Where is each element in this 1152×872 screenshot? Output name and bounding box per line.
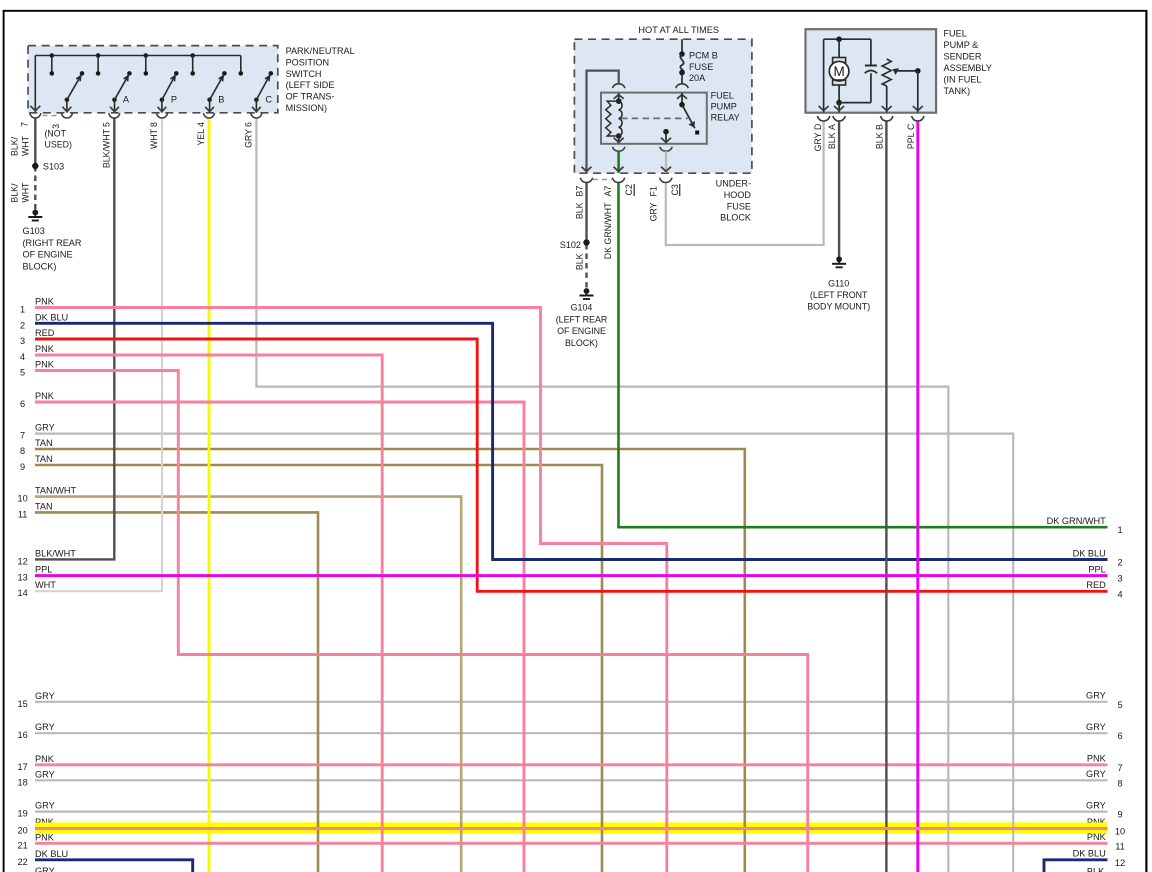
- svg-text:PNK: PNK: [1087, 754, 1107, 764]
- svg-text:GRY: GRY: [1086, 769, 1106, 779]
- svg-text:HOT AT ALL TIMES: HOT AT ALL TIMES: [638, 25, 719, 35]
- svg-text:6: 6: [243, 122, 253, 127]
- svg-text:SWITCH: SWITCH: [286, 69, 322, 79]
- svg-text:(NOT: (NOT: [45, 129, 67, 139]
- svg-text:WHT: WHT: [149, 128, 159, 149]
- svg-text:BLK/: BLK/: [10, 183, 20, 203]
- svg-text:13: 13: [17, 573, 27, 583]
- svg-text:GRY: GRY: [1086, 722, 1106, 732]
- svg-text:GRY: GRY: [1086, 691, 1106, 701]
- svg-text:RED: RED: [1086, 580, 1106, 590]
- svg-text:BLK/WHT: BLK/WHT: [101, 128, 111, 168]
- svg-text:6: 6: [20, 399, 25, 409]
- svg-text:G103: G103: [23, 226, 45, 236]
- svg-text:PNK: PNK: [35, 360, 55, 370]
- svg-text:C3: C3: [670, 184, 680, 195]
- svg-text:UNDER-: UNDER-: [716, 179, 751, 189]
- svg-text:4: 4: [20, 352, 25, 362]
- svg-text:6: 6: [1117, 731, 1122, 741]
- svg-text:2: 2: [20, 320, 25, 330]
- svg-text:10: 10: [17, 494, 27, 504]
- svg-text:DK BLU: DK BLU: [1073, 548, 1106, 558]
- svg-text:(LEFT FRONT: (LEFT FRONT: [810, 290, 868, 300]
- svg-text:SENDER: SENDER: [944, 51, 982, 61]
- svg-text:18: 18: [17, 777, 27, 787]
- svg-text:TAN/WHT: TAN/WHT: [35, 486, 77, 496]
- svg-text:GRY: GRY: [35, 801, 55, 811]
- svg-text:BLOCK: BLOCK: [720, 213, 751, 223]
- svg-text:BLK/: BLK/: [10, 136, 20, 156]
- svg-text:PUMP &: PUMP &: [944, 40, 979, 50]
- svg-text:RED: RED: [35, 328, 55, 338]
- svg-text:4: 4: [1117, 589, 1122, 599]
- svg-text:PNK: PNK: [1087, 832, 1107, 842]
- svg-text:2: 2: [1117, 558, 1122, 568]
- svg-text:FUEL: FUEL: [944, 29, 967, 39]
- svg-text:3: 3: [1117, 574, 1122, 584]
- svg-text:21: 21: [17, 840, 27, 850]
- svg-text:GRY: GRY: [243, 129, 253, 148]
- svg-text:F1: F1: [649, 186, 659, 196]
- svg-text:22: 22: [17, 857, 27, 867]
- svg-text:TANK): TANK): [944, 86, 971, 96]
- svg-text:DK BLU: DK BLU: [1073, 849, 1106, 859]
- svg-text:17: 17: [17, 762, 27, 772]
- svg-text:5: 5: [20, 368, 25, 378]
- svg-text:YEL: YEL: [196, 129, 206, 146]
- svg-text:9: 9: [20, 462, 25, 472]
- svg-text:A7: A7: [603, 186, 613, 197]
- svg-text:MISSION): MISSION): [286, 103, 327, 113]
- svg-text:GRY: GRY: [649, 202, 659, 221]
- svg-text:TAN: TAN: [35, 454, 53, 464]
- svg-text:14: 14: [17, 588, 27, 598]
- svg-text:OF ENGINE: OF ENGINE: [23, 250, 73, 260]
- svg-text:S102: S102: [560, 240, 581, 250]
- svg-text:BLOCK): BLOCK): [23, 261, 57, 271]
- svg-text:GRY: GRY: [35, 866, 55, 872]
- svg-text:GRY: GRY: [35, 722, 55, 732]
- svg-text:BLK: BLK: [575, 202, 585, 219]
- svg-text:DK GRN/WHT: DK GRN/WHT: [603, 202, 613, 259]
- svg-text:A: A: [123, 95, 130, 105]
- svg-text:DK BLU: DK BLU: [35, 849, 68, 859]
- svg-text:M: M: [833, 64, 844, 79]
- svg-text:BLK: BLK: [1087, 867, 1105, 872]
- svg-text:PCM B: PCM B: [689, 51, 718, 61]
- svg-text:(RIGHT REAR: (RIGHT REAR: [23, 238, 82, 248]
- svg-text:PPL: PPL: [35, 565, 52, 575]
- svg-text:OF ENGINE: OF ENGINE: [557, 326, 606, 336]
- svg-text:PPL: PPL: [1088, 564, 1105, 574]
- svg-text:TAN: TAN: [35, 438, 53, 448]
- svg-text:USED): USED): [45, 140, 72, 150]
- svg-text:FUSE: FUSE: [727, 201, 751, 211]
- svg-text:PNK: PNK: [35, 832, 55, 842]
- svg-text:B7: B7: [575, 186, 585, 197]
- svg-text:WHT: WHT: [35, 580, 56, 590]
- svg-text:7: 7: [20, 431, 25, 441]
- svg-text:19: 19: [17, 809, 27, 819]
- svg-text:C: C: [906, 123, 916, 130]
- svg-text:3: 3: [20, 336, 25, 346]
- svg-text:TAN: TAN: [35, 501, 53, 511]
- svg-text:(LEFT REAR: (LEFT REAR: [556, 314, 608, 324]
- svg-text:1: 1: [20, 305, 25, 315]
- svg-text:10: 10: [1115, 827, 1125, 837]
- svg-text:1: 1: [1117, 525, 1122, 535]
- svg-text:C2: C2: [624, 184, 634, 195]
- svg-text:PUMP: PUMP: [711, 102, 737, 112]
- svg-text:BLK: BLK: [875, 132, 885, 149]
- svg-text:GRY: GRY: [813, 132, 823, 151]
- svg-text:FUSE: FUSE: [689, 62, 713, 72]
- svg-text:9: 9: [1117, 810, 1122, 820]
- svg-text:B: B: [875, 124, 885, 130]
- svg-text:11: 11: [1115, 841, 1125, 851]
- svg-text:POSITION: POSITION: [286, 57, 329, 67]
- svg-text:PNK: PNK: [35, 391, 55, 401]
- svg-text:B: B: [218, 95, 224, 105]
- svg-text:5: 5: [101, 122, 111, 127]
- svg-text:P: P: [171, 95, 177, 105]
- svg-text:PNK: PNK: [35, 344, 55, 354]
- svg-text:HOOD: HOOD: [724, 190, 752, 200]
- svg-text:C: C: [265, 95, 272, 105]
- svg-text:11: 11: [18, 509, 28, 519]
- svg-text:PNK: PNK: [35, 297, 55, 307]
- svg-text:8: 8: [149, 122, 159, 127]
- svg-text:20: 20: [17, 826, 27, 836]
- svg-text:(LEFT SIDE: (LEFT SIDE: [286, 80, 335, 90]
- svg-text:PPL: PPL: [906, 132, 916, 149]
- svg-text:PNK: PNK: [35, 754, 55, 764]
- svg-text:BLK: BLK: [827, 132, 837, 149]
- svg-text:4: 4: [196, 122, 206, 127]
- svg-text:8: 8: [1117, 778, 1122, 788]
- svg-text:BODY MOUNT): BODY MOUNT): [807, 301, 870, 311]
- svg-text:12: 12: [17, 556, 27, 566]
- svg-text:BLOCK): BLOCK): [565, 338, 598, 348]
- svg-text:G104: G104: [571, 303, 593, 313]
- svg-text:15: 15: [17, 699, 27, 709]
- svg-text:A: A: [827, 124, 837, 130]
- svg-text:7: 7: [1117, 763, 1122, 773]
- svg-text:ASSEMBLY: ASSEMBLY: [944, 63, 992, 73]
- svg-text:D: D: [813, 124, 823, 130]
- svg-text:OF TRANS-: OF TRANS-: [286, 92, 335, 102]
- svg-text:5: 5: [1117, 700, 1122, 710]
- svg-text:DK BLU: DK BLU: [35, 312, 68, 322]
- svg-text:GRY: GRY: [35, 691, 55, 701]
- svg-text:20A: 20A: [689, 73, 706, 83]
- svg-text:16: 16: [17, 730, 27, 740]
- svg-text:G110: G110: [828, 279, 849, 289]
- svg-text:7: 7: [20, 122, 30, 127]
- svg-text:(IN FUEL: (IN FUEL: [944, 74, 982, 84]
- svg-text:GRY: GRY: [1086, 800, 1106, 810]
- svg-text:WHT: WHT: [21, 135, 31, 156]
- svg-text:PARK/NEUTRAL: PARK/NEUTRAL: [286, 46, 355, 56]
- svg-text:S103: S103: [43, 161, 64, 171]
- svg-text:GRY: GRY: [35, 769, 55, 779]
- svg-text:DK GRN/WHT: DK GRN/WHT: [1047, 516, 1107, 526]
- svg-text:FUEL: FUEL: [711, 91, 734, 101]
- svg-text:BLK/WHT: BLK/WHT: [35, 548, 76, 558]
- svg-text:BLK: BLK: [575, 253, 585, 270]
- svg-text:RELAY: RELAY: [711, 113, 740, 123]
- svg-text:8: 8: [20, 446, 25, 456]
- svg-text:WHT: WHT: [21, 182, 31, 203]
- svg-text:12: 12: [1115, 858, 1125, 868]
- svg-text:GRY: GRY: [35, 423, 55, 433]
